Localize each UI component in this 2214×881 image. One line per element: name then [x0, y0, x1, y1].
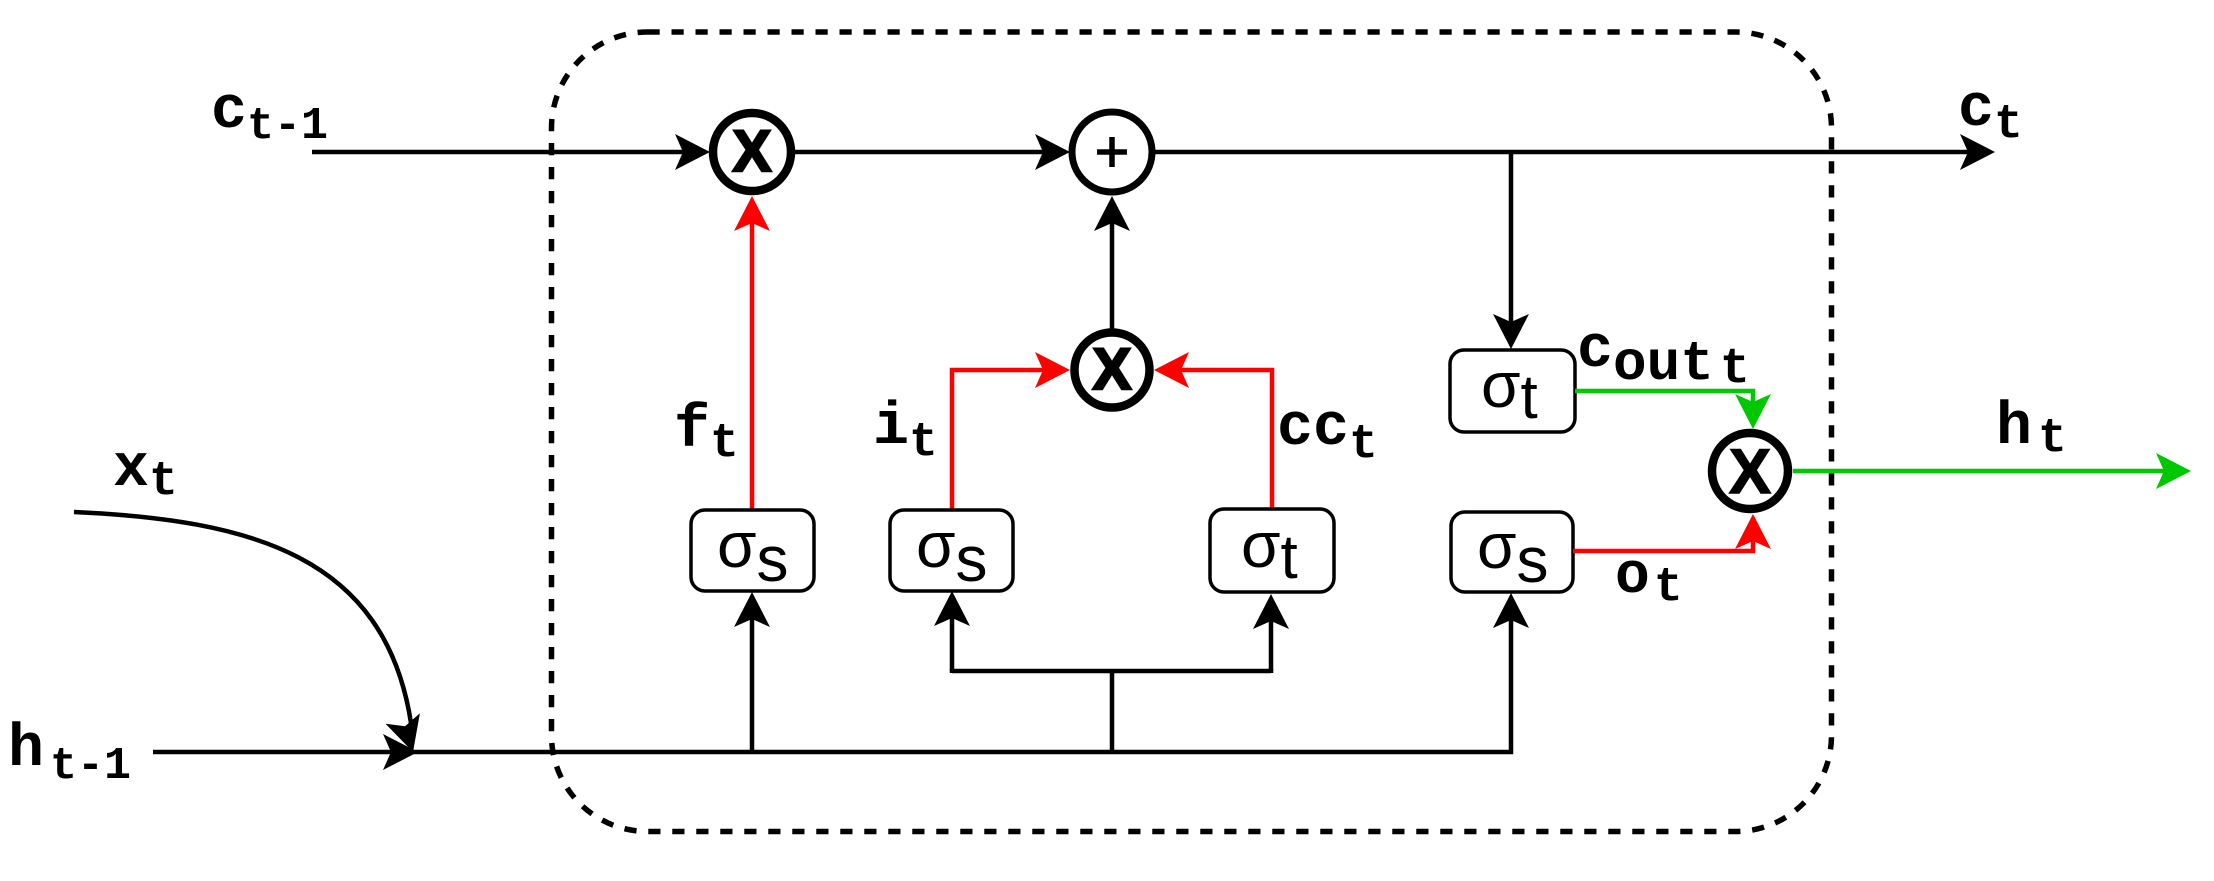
arrowhead into output sigma_s	[1493, 593, 1529, 628]
arrowhead on h line	[383, 734, 418, 770]
wire red forget gate f	[734, 196, 770, 510]
wire X1 to plus	[794, 134, 1070, 170]
svg-text:X: X	[733, 119, 772, 184]
label c_t-1	[211, 78, 328, 152]
wire branch trunk and bracket	[952, 671, 1271, 752]
wire branch up to candidate sigma_t	[1253, 594, 1289, 671]
label c_out_t	[1577, 317, 1750, 398]
svg-text:X: X	[1093, 337, 1132, 402]
wire green h_t output	[1793, 453, 2191, 489]
wire green c_out	[1575, 391, 1771, 429]
multiply node X3 (output gate)	[1712, 433, 1788, 509]
label o_t	[1615, 545, 1683, 615]
multiply node X1 (forget gate)	[713, 113, 791, 191]
wire branch to forget sigma_s	[734, 592, 770, 752]
label c_t	[1958, 76, 2023, 152]
wire branch up to input sigma_s	[934, 591, 970, 671]
wire branch down from c line to sigma_t	[1493, 152, 1529, 349]
wire red input gate i	[952, 352, 1070, 509]
label h_t-1	[8, 716, 131, 792]
wire c_t-1 input	[312, 134, 710, 170]
label x_t	[113, 436, 178, 509]
sigma box cell output sigma_t	[1450, 349, 1575, 432]
wire c_t output	[1155, 134, 1995, 170]
label f_t	[674, 397, 739, 471]
LSTM cell dashed boundary	[552, 32, 1832, 832]
wire red output gate o	[1573, 514, 1771, 551]
label i_t	[873, 394, 938, 470]
sigma box output gate sigma_s	[1451, 510, 1573, 596]
wire X2 to plus	[1094, 196, 1130, 329]
add node plus	[1072, 112, 1152, 192]
label cc_t	[1277, 395, 1378, 472]
multiply node X2 (candidate gate)	[1075, 333, 1150, 408]
wire x_t input curve	[74, 512, 420, 752]
wire h_t-1 input line	[153, 618, 1511, 752]
sigma box input gate sigma_s	[890, 509, 1013, 595]
sigma box candidate sigma_t	[1210, 509, 1334, 592]
wire red candidate cc	[1154, 352, 1272, 509]
label h_t	[1996, 394, 2067, 466]
svg-text:X: X	[1729, 437, 1771, 507]
sigma box forget gate sigma_s	[691, 509, 814, 595]
